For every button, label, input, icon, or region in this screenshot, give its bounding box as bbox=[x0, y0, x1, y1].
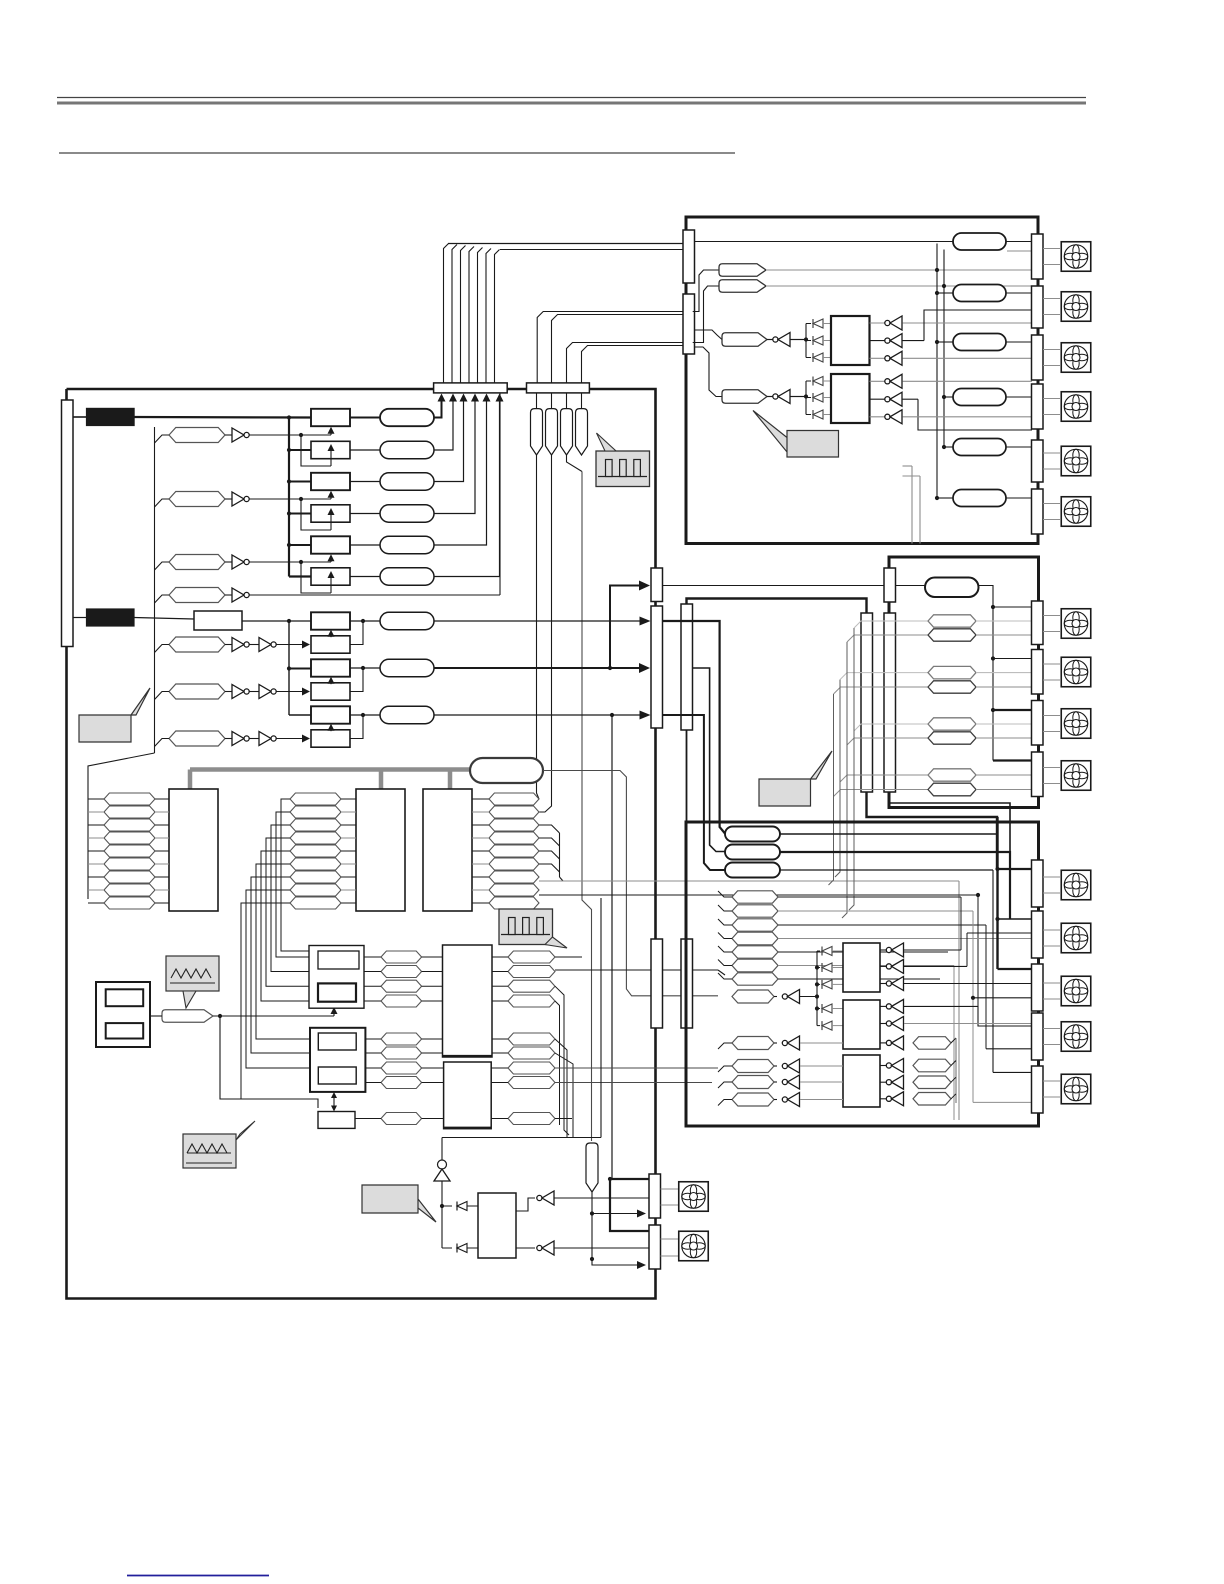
wire P2-3 to CN-M1 bbox=[434, 714, 645, 716]
inverter U1-2 bbox=[225, 498, 232, 500]
pill P1-5 bbox=[380, 536, 434, 553]
footer blue rule bbox=[127, 1575, 269, 1577]
net IC2-8 bbox=[290, 884, 341, 896]
connector CN-B-L2 bbox=[683, 294, 695, 354]
wire A1-6 to pill bbox=[350, 576, 380, 578]
wire P1-3 to top bus bbox=[434, 400, 464, 482]
thick wires CN-C bottoms bbox=[867, 792, 998, 869]
wire D3 out bbox=[780, 869, 993, 871]
wire FB1 input bbox=[73, 416, 87, 418]
sawtooth callout 1 bbox=[166, 956, 219, 1008]
connector CN-B-L1 bbox=[683, 230, 695, 283]
stage feedback arrows group 1 bbox=[299, 433, 303, 437]
wire top row bbox=[695, 241, 954, 243]
connector CN-D-R2 bbox=[1032, 911, 1044, 958]
box A2-3 bbox=[311, 659, 350, 676]
IC IC1 bbox=[169, 789, 218, 911]
pill D2 bbox=[725, 845, 780, 860]
net IC2-4 bbox=[290, 832, 341, 844]
descending bus wires C to D bbox=[849, 628, 854, 910]
risers block D bbox=[960, 897, 962, 950]
wire P1-1 to top bus bbox=[434, 400, 442, 418]
diode D1 bbox=[442, 1205, 452, 1207]
inverter UD1 bbox=[774, 996, 777, 998]
arrow into CN-F2 bbox=[592, 1259, 638, 1265]
net label C-7 bbox=[840, 775, 928, 782]
net label DL-1 bbox=[732, 1037, 774, 1050]
dropper wire to bottom connectors bbox=[611, 715, 613, 1179]
connector bar CN-L1 bbox=[62, 400, 74, 647]
gray wire B-H1 bbox=[766, 269, 1032, 271]
net IC1-2 bbox=[104, 806, 155, 818]
connector CN-C-R1 bbox=[1032, 601, 1044, 645]
wire CN-M0 to block C bbox=[663, 585, 885, 587]
DRV1 sub box 2 bbox=[318, 1067, 356, 1084]
wire P1-2 to top bus bbox=[434, 400, 453, 451]
net label D-5 bbox=[732, 946, 778, 958]
net label D-8 bbox=[732, 990, 774, 1003]
wire U1-3 out bbox=[250, 561, 302, 563]
connector CN-B1 bbox=[96, 982, 150, 1047]
wire box to pill P2-2 bbox=[350, 667, 380, 669]
pill C1 bbox=[925, 578, 979, 598]
connector CN-F1 bbox=[649, 1174, 661, 1218]
driver box DRV2 bbox=[478, 1193, 516, 1258]
wire FB1 to R-box row1 bbox=[134, 416, 311, 419]
pill P1-1 bbox=[380, 409, 434, 426]
wire net to D block bbox=[555, 969, 718, 971]
connector CN-M0 bbox=[651, 568, 663, 602]
net label C-4 bbox=[834, 687, 929, 694]
wire PWR to net D-8 bbox=[543, 771, 718, 996]
inverter UB1 bbox=[767, 339, 773, 341]
net label D-4 bbox=[732, 932, 778, 945]
gray wire B-H2 bbox=[766, 285, 1032, 287]
driver box FD-2 bbox=[843, 1000, 880, 1049]
net label N1-3 bbox=[169, 555, 225, 570]
DRV1 sub box 1 bbox=[318, 1033, 356, 1050]
arrow into CN-F1 bbox=[592, 1213, 638, 1215]
OSC1 sub box 2 bbox=[318, 983, 356, 1001]
inner vertical join wires bbox=[911, 466, 913, 544]
connector bar CN-T1 bbox=[434, 383, 508, 393]
connector CN-M4 bbox=[681, 939, 693, 1028]
inter-box arrows group 2 bbox=[330, 636, 332, 638]
wire flag1 down to hex row bbox=[537, 455, 540, 799]
fan M-D3 bbox=[1043, 982, 1060, 984]
wire row8 to D block bbox=[539, 894, 978, 896]
net IC2-2 bbox=[290, 806, 341, 818]
connector CN-C-R2 bbox=[1032, 650, 1044, 695]
wires N1 from trunk bbox=[155, 435, 170, 443]
wire A1-2 to pill bbox=[350, 449, 380, 451]
net IC1-8 bbox=[104, 884, 155, 896]
wire A1-3 to pill bbox=[350, 481, 380, 483]
net label C-1 bbox=[854, 621, 928, 628]
wire U1-2 out bbox=[250, 498, 302, 500]
riser to CN-M0 bbox=[610, 586, 639, 669]
net label D-2 bbox=[732, 905, 778, 917]
net label C-3 bbox=[840, 673, 928, 680]
wire box to pill P2-1 bbox=[350, 620, 380, 622]
inverter U1-4 bbox=[225, 594, 232, 596]
net IC3-5 bbox=[489, 845, 539, 857]
net IC3-7 bbox=[489, 871, 539, 883]
box A1-6 bbox=[311, 568, 350, 585]
net IC3-1 bbox=[489, 793, 539, 805]
net label N2-2 bbox=[169, 684, 225, 699]
wire P2-1 to CN-M1 bbox=[434, 620, 645, 622]
net IC3-6 bbox=[489, 858, 539, 870]
ferrite bead FB1 bbox=[87, 408, 135, 425]
net IC2-7 bbox=[290, 871, 341, 883]
pill P2-1 bbox=[380, 612, 434, 629]
net flag bottom bbox=[586, 1143, 598, 1192]
callout note 1 (left) bbox=[79, 688, 150, 742]
callout note B bbox=[753, 411, 839, 458]
wire A1-1 to pill bbox=[350, 417, 380, 419]
fan M-B6 bbox=[1043, 503, 1060, 505]
vertical bus BUS1 (thick) bbox=[288, 418, 290, 577]
arrow into osc box bbox=[333, 1013, 335, 1016]
connector CN-D-R4 bbox=[1032, 1013, 1044, 1060]
output inverters FD-2 bbox=[880, 1005, 887, 1007]
staircase wires V1 rows bbox=[555, 986, 569, 1135]
fan M-C2 bbox=[1043, 663, 1060, 665]
fan M-B2 bbox=[1043, 298, 1060, 300]
fan M-D1 bbox=[1043, 876, 1060, 878]
connector CN-B-R2 bbox=[1032, 286, 1044, 328]
wire N2-1 from trunk bbox=[155, 645, 170, 653]
gray wire to D block bbox=[539, 880, 959, 882]
net label N1-4 bbox=[169, 588, 225, 603]
trunk wires to bottom section bbox=[281, 799, 310, 951]
fan M-B5 bbox=[1043, 452, 1060, 454]
net IC1-7 bbox=[104, 871, 155, 883]
connector CN-B-R6 bbox=[1032, 489, 1044, 534]
wire N2-3 from trunk bbox=[155, 739, 170, 747]
wire A1-4 to pill bbox=[350, 513, 380, 515]
ferrite bead FB2 bbox=[87, 609, 135, 626]
inverter U2-3a bbox=[225, 738, 232, 740]
connector CN-M2 bbox=[681, 604, 693, 730]
mid nets group A bbox=[381, 951, 422, 963]
diode D2 bbox=[442, 1247, 452, 1249]
feed wires to pills D bbox=[663, 621, 726, 834]
net label N1-1 bbox=[169, 428, 225, 443]
fan M-F2 bbox=[661, 1238, 679, 1240]
branch wire down bbox=[220, 1016, 318, 1108]
CN-B1 pin 2 bbox=[106, 1023, 144, 1038]
arrows into CN-T1 bbox=[438, 394, 446, 402]
IC IC2 bbox=[356, 789, 405, 911]
mid nets group C bbox=[381, 1062, 422, 1074]
inverter U2-1a bbox=[225, 644, 232, 646]
V2 output nets bbox=[508, 1062, 555, 1074]
section title underline bbox=[59, 152, 735, 154]
fan M-F1 bbox=[661, 1188, 679, 1190]
net IC3-8 bbox=[489, 884, 539, 896]
IC IC3 bbox=[423, 789, 472, 911]
pulse callout 2 bbox=[499, 909, 567, 948]
net IC3-3 bbox=[489, 819, 539, 831]
connector CN-D-R1 bbox=[1032, 860, 1044, 907]
net IC1-5 bbox=[104, 845, 155, 857]
net label C-6 bbox=[847, 738, 928, 745]
block A border (main board) bbox=[67, 388, 435, 391]
wire pair join P2-1 bbox=[350, 621, 363, 645]
diode bank B2 bbox=[805, 381, 807, 415]
bus wire 7 down to row 595 bbox=[499, 393, 501, 595]
fan M-D4 bbox=[1043, 1028, 1060, 1030]
block B border (fan board top) bbox=[686, 217, 1038, 544]
page header double rule bbox=[57, 97, 1086, 99]
net label B-H2 bbox=[693, 286, 719, 343]
pill P1-4 bbox=[380, 505, 434, 522]
transistor Q1 bbox=[441, 1138, 443, 1161]
output inverters FB-1 bbox=[870, 322, 887, 324]
video box V2 bbox=[444, 1062, 492, 1129]
inverter U1-3 bbox=[225, 561, 232, 563]
pill P1-2 bbox=[380, 441, 434, 458]
wire pair join P2-3 bbox=[350, 715, 363, 739]
wire U1-1 out bbox=[250, 434, 302, 436]
driver box FD-1 bbox=[843, 943, 880, 992]
pill P1-3 bbox=[380, 473, 434, 490]
wire box to pill P2-3 bbox=[350, 714, 380, 716]
gray feed wire R1 bbox=[1007, 250, 1032, 252]
wire N2-2 from trunk bbox=[155, 692, 170, 700]
vertical bus BUS2 bbox=[288, 621, 290, 715]
net label N2-3 bbox=[169, 731, 225, 746]
net label B-H1 bbox=[693, 270, 719, 312]
box A1-2 bbox=[311, 441, 350, 458]
input trunk vertical bbox=[154, 427, 156, 753]
net IC2-1 bbox=[290, 793, 341, 805]
net IC1-9 bbox=[104, 897, 155, 909]
pill D1 bbox=[725, 827, 780, 842]
wire flag3 to long vertical bbox=[567, 455, 583, 472]
diode bank D2 bbox=[817, 1008, 820, 1010]
wire U2-2 to box bbox=[277, 691, 303, 693]
wire P1-4 to top bus bbox=[434, 400, 475, 514]
sawtooth callout 2 bbox=[183, 1121, 255, 1168]
output inverters FB-2 bbox=[870, 380, 887, 382]
diode bank D1 bbox=[816, 951, 818, 1026]
connector CN-C-R3 bbox=[1032, 701, 1044, 746]
connector CN-M1 bbox=[651, 606, 663, 728]
staircase wires IC3 rows to bus bbox=[539, 825, 560, 833]
driver box DRV1 bbox=[310, 1028, 365, 1092]
pills B2-B6 bbox=[953, 285, 1006, 302]
net label N1-2 bbox=[169, 492, 225, 507]
net label C-5 bbox=[854, 724, 928, 731]
gray power bus bbox=[190, 767, 470, 772]
osc box OSC1 bbox=[309, 946, 364, 1009]
net IC3-2 bbox=[489, 806, 539, 818]
filter box FL1 bbox=[194, 611, 242, 630]
wire A1-5 to pill bbox=[350, 544, 380, 546]
long vertical wire to bottom flag bbox=[582, 472, 592, 1142]
net label DL-2 bbox=[732, 1060, 774, 1073]
block C border (fan board middle) bbox=[889, 557, 1039, 808]
fan M-B3 bbox=[1043, 349, 1060, 351]
net label D-3 bbox=[732, 919, 778, 931]
connector CN-C-R4 bbox=[1032, 752, 1044, 797]
trunk bend to lower hex column bbox=[88, 753, 155, 899]
wire FL1 to box row bbox=[242, 620, 311, 622]
CN-B1 pin 1 bbox=[106, 989, 144, 1006]
fan M-C1 bbox=[1043, 615, 1060, 617]
output wires FB right bbox=[903, 322, 1033, 324]
driver box FB-2 bbox=[831, 374, 870, 423]
box A2-4 bbox=[311, 683, 350, 700]
connector CN-D-R3 bbox=[1032, 964, 1044, 1011]
wires group C to D block bbox=[555, 1067, 718, 1069]
net label C-2 bbox=[847, 635, 928, 642]
net IC3-4 bbox=[489, 832, 539, 844]
wire U5a out bbox=[555, 1197, 650, 1199]
wire row1 to flag bus bbox=[555, 956, 582, 958]
fan M-D2 bbox=[1043, 929, 1060, 931]
wire U2-3 to box bbox=[277, 738, 303, 740]
connector bar CN-T2 bbox=[527, 383, 590, 393]
mid net SY row bbox=[381, 1113, 422, 1125]
net IC2-9 bbox=[290, 897, 341, 909]
inverter U5a bbox=[516, 1198, 535, 1211]
connector CN-B-R3 bbox=[1032, 335, 1044, 380]
pill D3 bbox=[725, 863, 780, 878]
net label bottom bbox=[162, 1010, 213, 1023]
net flags under CN-T2 bbox=[536, 393, 538, 409]
box A1-1 bbox=[311, 409, 350, 426]
output inverters FD-1 bbox=[880, 949, 887, 951]
fan M-C3 bbox=[1043, 715, 1060, 717]
thick wire CN-M2 top to mid bars bbox=[687, 599, 867, 614]
connector CN-B-R1 bbox=[1032, 234, 1044, 279]
net label B-H3 bbox=[695, 330, 723, 340]
connector CN-C-L1 bbox=[884, 568, 896, 602]
left feeds to pills bbox=[936, 244, 938, 499]
net label N2-1 bbox=[169, 637, 225, 652]
fan M-B1 bbox=[1043, 248, 1060, 250]
video box V1 bbox=[443, 945, 493, 1057]
block D border (fan board bottom) bbox=[686, 822, 1039, 1126]
net label DL-4 bbox=[732, 1093, 774, 1106]
connector CN-F2 bbox=[649, 1225, 661, 1269]
net IC1-1 bbox=[104, 793, 155, 805]
wire P2-2 to CN-M1 (thick) bbox=[434, 667, 639, 669]
net label C-8 bbox=[834, 790, 929, 797]
pill P2-3 bbox=[380, 706, 434, 723]
mid nets group B bbox=[381, 1033, 422, 1045]
callout note D bbox=[362, 1185, 436, 1222]
net label D-1 bbox=[732, 891, 778, 903]
net label D-7 bbox=[732, 973, 778, 985]
inverter U2-1b bbox=[250, 644, 260, 646]
diode bank B1 bbox=[805, 324, 807, 358]
wire U1-4 out bbox=[250, 594, 501, 596]
net IC2-3 bbox=[290, 819, 341, 831]
gray collector vertical bbox=[955, 1038, 957, 1103]
net IC3-9 bbox=[489, 897, 539, 909]
wire U2-1 to box bbox=[277, 644, 303, 646]
box A1-4 bbox=[311, 505, 350, 522]
net IC1-4 bbox=[104, 832, 155, 844]
net IC2-6 bbox=[290, 858, 341, 870]
wire to osc box bbox=[150, 1015, 162, 1017]
net IC2-5 bbox=[290, 845, 341, 857]
net label B-H4 bbox=[695, 347, 725, 397]
inverter U1-1 bbox=[225, 434, 232, 436]
driver box FD-3 bbox=[843, 1055, 880, 1107]
fan M-C4 bbox=[1043, 767, 1060, 769]
OSC1 sub box 1 bbox=[318, 951, 359, 969]
wire CN-M2 bottom to block D border bbox=[686, 730, 688, 822]
wire P1-6 to top bus bbox=[434, 400, 500, 577]
pill P2-2 bbox=[380, 659, 434, 676]
box A2-2 bbox=[311, 636, 350, 653]
wire D2 out bbox=[780, 852, 1010, 919]
power pill PWR bbox=[470, 758, 543, 783]
fan M-D5 bbox=[1043, 1080, 1060, 1082]
wire FB2 input bbox=[73, 617, 87, 619]
bus wires CN-T1 to block B connector bbox=[444, 244, 449, 383]
box A2-5 bbox=[311, 706, 350, 723]
inverter U2-2a bbox=[225, 691, 232, 693]
connector CN-D-R5 bbox=[1032, 1066, 1044, 1113]
inverter UB2 bbox=[767, 396, 773, 398]
thick feed CN-F1 bbox=[612, 1178, 649, 1180]
box A2-6 bbox=[311, 730, 350, 747]
box A1-5 bbox=[311, 536, 350, 553]
callout note C bbox=[759, 751, 832, 806]
inverter U2-3b bbox=[250, 738, 260, 740]
connector CN-M3 bbox=[651, 939, 663, 1028]
wire P1-5 to top bus bbox=[434, 400, 487, 546]
connector bars C mid bbox=[861, 613, 873, 792]
wire U5b out bbox=[555, 1247, 650, 1249]
wire flag2 down to hex row bbox=[539, 455, 552, 812]
sync box SY1 bbox=[318, 1112, 355, 1129]
bus wires CN-T2 to block B connector 2 bbox=[537, 312, 683, 383]
wire C1 to riser bbox=[979, 586, 994, 761]
net label DL-3 bbox=[732, 1076, 774, 1089]
net IC1-3 bbox=[104, 819, 155, 831]
wire FB2 to filter box bbox=[134, 618, 194, 620]
connector CN-B-R5 bbox=[1032, 440, 1044, 482]
net IC1-6 bbox=[104, 858, 155, 870]
inverter U2-2b bbox=[250, 691, 260, 693]
wire pair join P2-2 bbox=[350, 668, 363, 692]
flag wire down bbox=[591, 1192, 593, 1259]
wire top of transistor bbox=[442, 1137, 601, 1139]
V1 output nets bbox=[508, 951, 555, 963]
wire D1 out bbox=[780, 817, 998, 834]
pill P1-6 bbox=[380, 568, 434, 585]
inverter U5b bbox=[516, 1247, 535, 1249]
connector CN-B-R4 bbox=[1032, 384, 1044, 429]
fan M-B4 bbox=[1043, 398, 1060, 400]
net label D-6 bbox=[732, 959, 778, 972]
pill B1 bbox=[953, 233, 1006, 250]
box A1-3 bbox=[311, 473, 350, 490]
double arrow DRV1-SY1 bbox=[333, 1096, 335, 1107]
pulse callout 1 bbox=[596, 433, 650, 487]
driver box FB-1 bbox=[831, 316, 870, 365]
box A2-1 bbox=[311, 612, 350, 629]
